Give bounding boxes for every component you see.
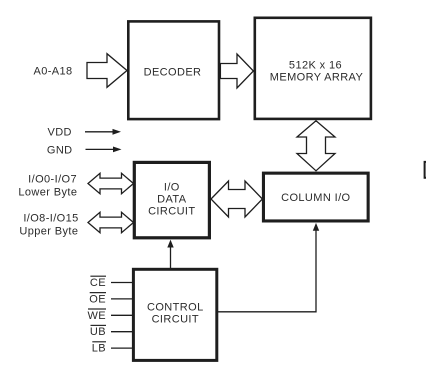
arrow VDD supply bbox=[85, 129, 121, 135]
bus arrow DECODER to MEMORY ARRAY bbox=[220, 54, 253, 88]
svg-text:Lower Byte: Lower Byte bbox=[18, 186, 77, 198]
svg-text:COLUMN I/O: COLUMN I/O bbox=[281, 192, 350, 204]
bidirectional bus arrow I/O0-I/O7 lower byte bbox=[88, 173, 134, 193]
label GND bbox=[47, 144, 73, 156]
partial block at right edge (cropped) bbox=[425, 162, 426, 178]
label OE (active low) bbox=[89, 293, 106, 306]
bidirectional bus arrow I/O8-I/O15 upper byte bbox=[88, 212, 134, 232]
block U5 CONTROL CIRCUIT bbox=[133, 269, 216, 360]
svg-text:I/O8-I/O15: I/O8-I/O15 bbox=[23, 213, 78, 225]
svg-text:DECODER: DECODER bbox=[144, 67, 202, 79]
wire CE bbox=[111, 282, 134, 284]
svg-text:I/O0-I/O7: I/O0-I/O7 bbox=[28, 173, 77, 185]
bidirectional bus arrow MEMORY ARRAY / COLUMN I/O bbox=[297, 121, 335, 171]
svg-text:CE: CE bbox=[90, 277, 106, 289]
svg-text:CIRCUIT: CIRCUIT bbox=[148, 206, 195, 218]
svg-text:GND: GND bbox=[47, 144, 73, 156]
svg-text:OE: OE bbox=[89, 293, 106, 305]
wire UB bbox=[111, 331, 134, 333]
label WE (active low) bbox=[87, 309, 106, 322]
svg-text:512K x 16: 512K x 16 bbox=[289, 59, 342, 71]
svg-text:Upper Byte: Upper Byte bbox=[19, 226, 78, 238]
bidirectional bus arrow I/O DATA CIRCUIT / COLUMN I/O bbox=[211, 181, 262, 217]
bus arrow A0-A18 into DECODER bbox=[87, 54, 127, 88]
svg-text:DATA: DATA bbox=[157, 194, 187, 206]
block U4 COLUMN I/O bbox=[263, 173, 368, 221]
block U1 DECODER bbox=[128, 21, 219, 119]
wire WE bbox=[111, 314, 134, 316]
wire CONTROL CIRCUIT to COLUMN I/O bbox=[218, 223, 320, 312]
arrow GND supply bbox=[86, 147, 122, 153]
block U3 I/O DATA CIRCUIT bbox=[134, 162, 209, 237]
svg-text:WE: WE bbox=[87, 310, 106, 322]
svg-text:CONTROL: CONTROL bbox=[147, 302, 204, 314]
label A0-A18 bbox=[33, 66, 72, 78]
block U2 MEMORY ARRAY bbox=[255, 18, 371, 119]
wire OE bbox=[111, 298, 134, 300]
wire CONTROL CIRCUIT to I/O DATA CIRCUIT bbox=[167, 240, 173, 269]
label VDD bbox=[47, 127, 71, 139]
label CE (active low) bbox=[90, 276, 106, 289]
svg-text:MEMORY ARRAY: MEMORY ARRAY bbox=[270, 71, 364, 83]
svg-text:A0-A18: A0-A18 bbox=[33, 66, 72, 78]
label LB (active low) bbox=[92, 342, 106, 355]
svg-text:CIRCUIT: CIRCUIT bbox=[152, 313, 199, 325]
svg-text:VDD: VDD bbox=[47, 127, 71, 139]
svg-text:I/O: I/O bbox=[164, 182, 180, 194]
label I/O0-I/O7 Lower Byte bbox=[18, 173, 77, 198]
wire LB bbox=[111, 347, 134, 349]
svg-text:LB: LB bbox=[92, 343, 106, 355]
svg-text:UB: UB bbox=[90, 326, 106, 338]
label I/O8-I/O15 Upper Byte bbox=[19, 213, 78, 238]
label UB (active low) bbox=[90, 325, 106, 338]
